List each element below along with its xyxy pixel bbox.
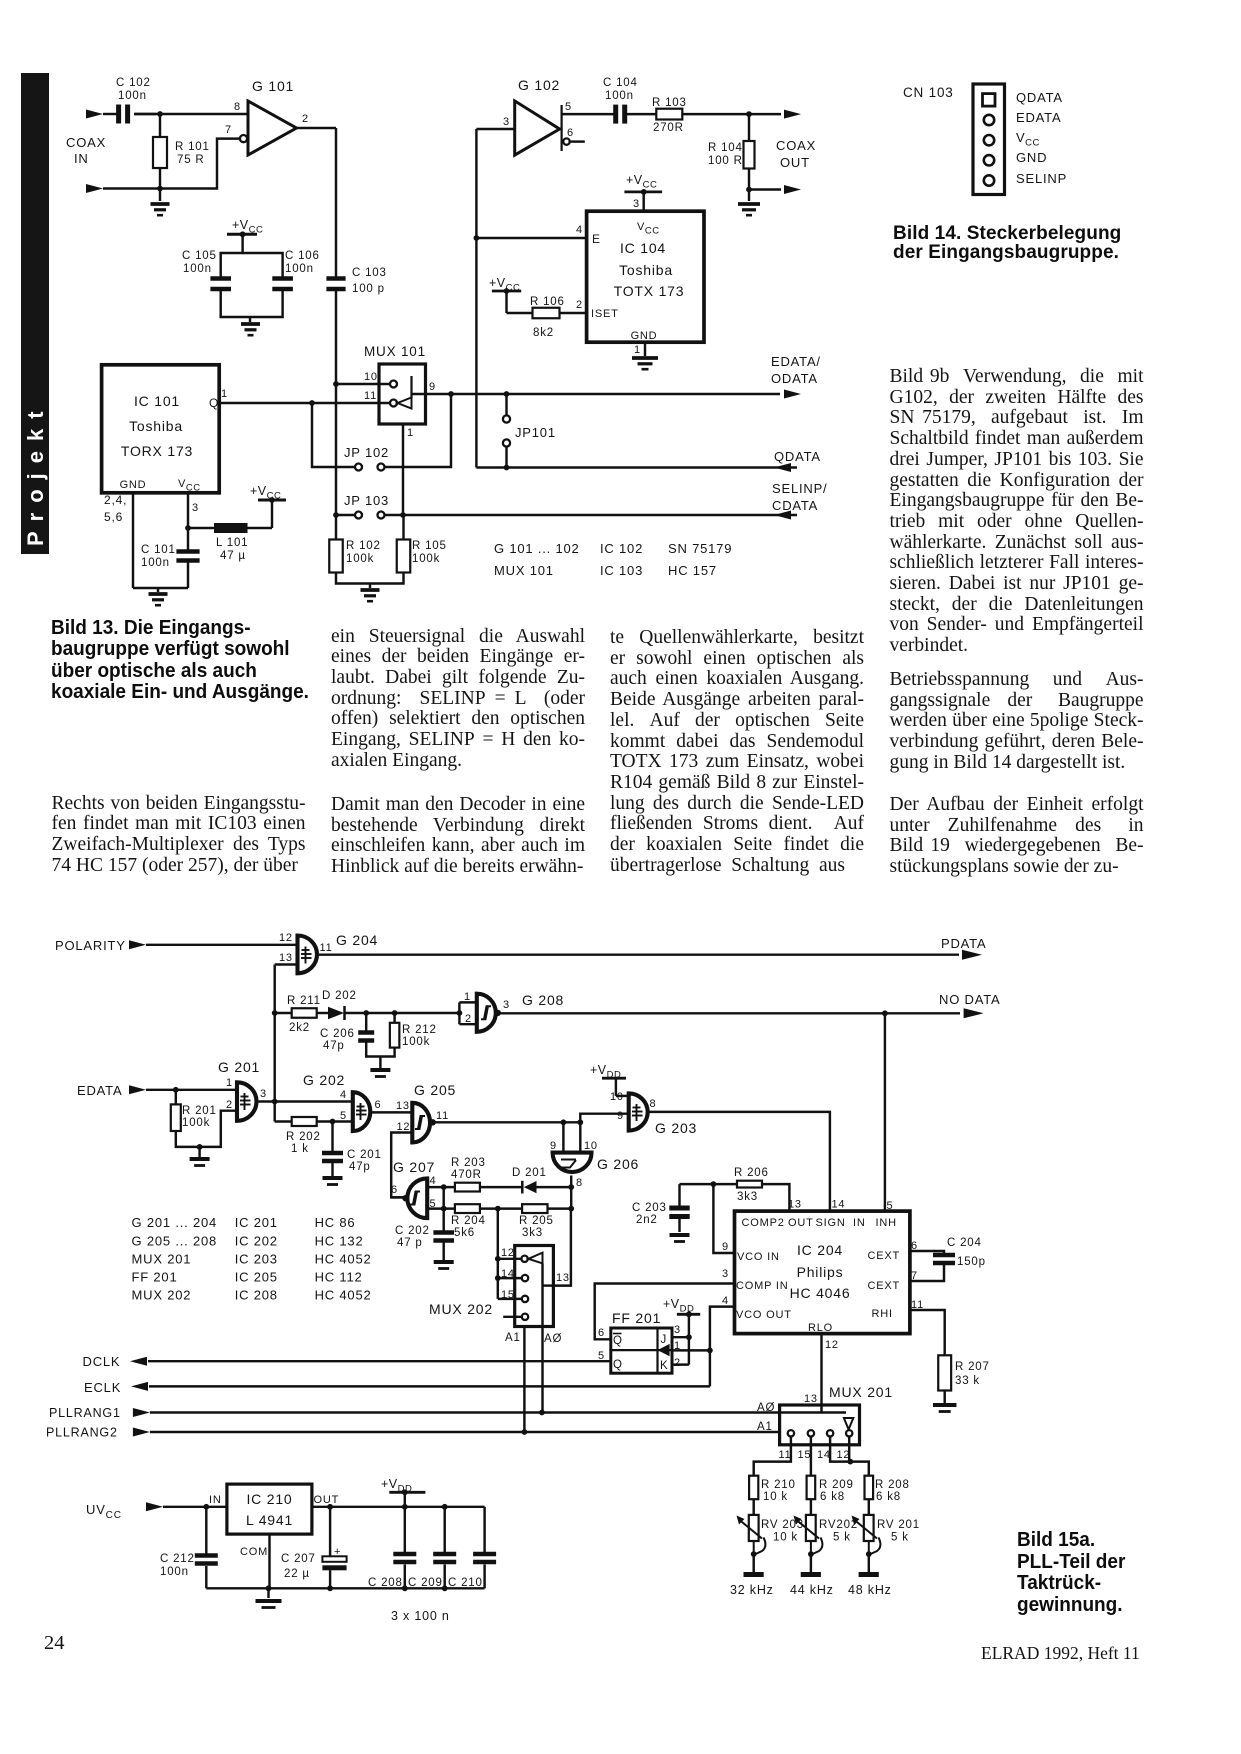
wire caps to ground — [221, 289, 283, 317]
wire E pin 4 — [476, 237, 586, 239]
ground below R104 — [748, 190, 750, 202]
svg-text:D 202: D 202 — [322, 990, 357, 1002]
svg-text:RLO: RLO — [808, 1322, 833, 1334]
svg-text:47 µ: 47 µ — [220, 550, 246, 562]
caption Bild 14 — [893, 224, 1121, 262]
wire IC210 COM — [268, 1534, 270, 1588]
node: FF clock junction — [707, 1348, 713, 1354]
power +VCC at L101 — [271, 500, 273, 528]
wire to G101 pin 8 — [160, 113, 248, 115]
svg-text:K: K — [660, 1360, 668, 1372]
wire lower line to G101 pin 7 — [160, 139, 239, 189]
svg-text:R 105: R 105 — [412, 540, 447, 552]
svg-text:R 102: R 102 — [346, 540, 381, 552]
svg-text:R 212: R 212 — [402, 1024, 437, 1036]
diode D201 — [480, 1186, 522, 1188]
svg-text:R 103: R 103 — [652, 97, 687, 109]
svg-text:8k2: 8k2 — [533, 327, 554, 339]
node: pin4/pin5 tie top — [441, 1184, 447, 1190]
capacitor C204 — [933, 1253, 955, 1258]
svg-text:R 101: R 101 — [175, 141, 210, 153]
jumper JP102 — [355, 464, 362, 471]
wire MUX201 pin 11 to R210 — [754, 1437, 791, 1476]
inductor L101 — [188, 527, 214, 529]
svg-text:6: 6 — [375, 1099, 382, 1111]
svg-text:+VDD: +VDD — [663, 1297, 694, 1315]
svg-text:1: 1 — [634, 344, 641, 356]
svg-text:IC 102: IC 102 — [600, 541, 643, 556]
column 1 paragraph — [52, 794, 306, 877]
input arrow COAX IN (signal) — [86, 110, 103, 119]
svg-text:13: 13 — [396, 1100, 410, 1112]
svg-text:R 204: R 204 — [451, 1215, 486, 1227]
svg-text:SELINP/: SELINP/ — [772, 481, 827, 496]
svg-text:14: 14 — [817, 1449, 831, 1461]
caption Bild 13 — [51, 618, 309, 703]
ground below IC104 — [632, 356, 658, 360]
node: JP103/R102 junction — [333, 512, 339, 518]
svg-text:470R: 470R — [451, 1169, 482, 1181]
column 3 paragraph — [610, 628, 864, 876]
regulator IC210 box — [227, 1484, 312, 1534]
svg-text:ODATA: ODATA — [771, 371, 818, 386]
svg-text:2: 2 — [674, 1357, 681, 1369]
svg-text:PLLRANG2: PLLRANG2 — [46, 1426, 118, 1440]
wire R103 to COAX OUT — [682, 113, 781, 115]
wire G207 pin 4 to R203 — [427, 1186, 455, 1188]
svg-text:MUX 101: MUX 101 — [494, 563, 554, 578]
ground below C203 — [678, 1219, 680, 1232]
svg-text:ECLK: ECLK — [84, 1380, 121, 1395]
svg-text:2: 2 — [226, 1099, 233, 1111]
op-amp G101 (SN75179 receiver) — [248, 101, 297, 155]
node: R201 junction — [173, 1087, 179, 1093]
svg-text:12: 12 — [501, 1247, 515, 1259]
caption Bild 15a — [1017, 1530, 1125, 1617]
svg-text:2: 2 — [302, 113, 309, 125]
svg-text:GND: GND — [631, 330, 658, 342]
svg-text:13: 13 — [556, 1272, 570, 1284]
svg-text:100k: 100k — [182, 1117, 210, 1129]
svg-text:100k: 100k — [412, 553, 440, 565]
capacitor C103 (series) — [326, 276, 345, 281]
svg-text:R 209: R 209 — [819, 1479, 854, 1491]
svg-text:PDATA: PDATA — [941, 936, 986, 951]
svg-text:MUX 101: MUX 101 — [364, 344, 426, 359]
MUX101 switch symbol — [398, 398, 412, 409]
ground below R201 — [190, 1157, 210, 1161]
ground below R207 — [943, 1391, 945, 1404]
node: C102/R101 junction — [157, 111, 163, 117]
wire POLARITY to G204 pin 12 — [146, 944, 298, 946]
wire: main vertical (G204.13/R211/G201.3) — [273, 965, 275, 1122]
svg-text:G 203: G 203 — [655, 1120, 697, 1136]
svg-text:48 kHz: 48 kHz — [848, 1583, 892, 1597]
svg-text:6: 6 — [598, 1327, 605, 1339]
svg-text:R 211: R 211 — [287, 995, 321, 1007]
svg-text:6 k8: 6 k8 — [876, 1491, 901, 1503]
svg-text:11: 11 — [779, 1449, 792, 1461]
footer journal — [981, 1643, 1140, 1664]
svg-text:G 201: G 201 — [218, 1059, 260, 1075]
wire: vertical from G101 out to C103 — [335, 128, 337, 277]
wire CEXT pin7 to C204 — [910, 1263, 944, 1281]
svg-text:1: 1 — [221, 388, 228, 400]
MUX202 internal pole wire / A0 riser — [541, 1263, 543, 1412]
wire +VCC to caps — [221, 234, 243, 277]
svg-text:100k: 100k — [402, 1036, 430, 1048]
capacitor C207 (electrolytic) — [329, 1507, 331, 1557]
capacitor C210 — [483, 1507, 485, 1553]
resistor R105 — [402, 515, 404, 540]
input arrow COAX IN (shield) — [86, 184, 103, 193]
svg-text:3: 3 — [192, 502, 199, 514]
wire FF201 J to +VDD — [672, 1336, 689, 1338]
wire FF201 K tie — [672, 1363, 689, 1365]
svg-text:11: 11 — [436, 1110, 449, 1122]
svg-text:1: 1 — [226, 1077, 233, 1089]
wire JP103 left — [336, 514, 355, 516]
svg-text:Projekt: Projekt — [23, 401, 48, 546]
svg-text:IC 205: IC 205 — [235, 1270, 278, 1285]
wire R202 to G202 pin 5 — [317, 1120, 353, 1122]
svg-text:13: 13 — [788, 1199, 802, 1211]
wire G203 out to IC204 pin 14 — [648, 1112, 830, 1211]
svg-text:2: 2 — [465, 1013, 472, 1025]
svg-text:VCC: VCC — [637, 221, 660, 237]
svg-text:9: 9 — [550, 1140, 557, 1152]
svg-text:5: 5 — [598, 1350, 605, 1362]
power +VDD at FF201 — [677, 1313, 700, 1316]
svg-text:C 204: C 204 — [947, 1237, 982, 1249]
svg-text:+VDD: +VDD — [381, 1477, 412, 1495]
CN103 pin 5 circle — [984, 175, 994, 185]
IC104 GND pin 1 wire — [644, 342, 646, 356]
MUX202 4th pin circle — [522, 1314, 528, 1320]
svg-text:IN: IN — [853, 1217, 866, 1229]
svg-text:CEXT: CEXT — [868, 1250, 901, 1262]
IC104 TOTX173 box — [587, 211, 704, 342]
wire D201 to junction — [537, 1186, 572, 1188]
svg-text:R 201: R 201 — [182, 1105, 217, 1117]
wire NO DATA line — [498, 1012, 960, 1014]
svg-text:7: 7 — [911, 1270, 918, 1282]
wire R106 to ISET pin 2 — [560, 312, 587, 314]
svg-text:3k3: 3k3 — [737, 1191, 758, 1203]
svg-text:QDATA: QDATA — [774, 449, 821, 464]
svg-text:SELINP: SELINP — [1016, 171, 1067, 186]
svg-text:POLARITY: POLARITY — [55, 938, 126, 953]
arrow EDATA/ODATA (out) — [784, 390, 801, 399]
wire EDATA to G201 pin 1 — [146, 1089, 237, 1091]
node: C201 junction — [330, 1119, 336, 1125]
svg-text:7: 7 — [225, 124, 232, 136]
svg-text:IC 208: IC 208 — [235, 1288, 278, 1303]
svg-text:Q: Q — [209, 396, 219, 410]
svg-text:IC 203: IC 203 — [235, 1252, 278, 1267]
svg-text:1 k: 1 k — [291, 1143, 309, 1155]
resistor R104 — [748, 114, 750, 141]
resistor R202 — [292, 1117, 317, 1126]
svg-text:R 210: R 210 — [761, 1479, 796, 1491]
svg-text:R 205: R 205 — [519, 1215, 554, 1227]
svg-text:C 207: C 207 — [281, 1553, 316, 1565]
wire D202 to G208 input — [345, 1012, 460, 1014]
svg-text:6: 6 — [911, 1240, 918, 1252]
svg-text:4: 4 — [722, 1295, 729, 1307]
svg-text:HC 112: HC 112 — [315, 1270, 363, 1285]
MUX202 pin 12 circle — [521, 1256, 527, 1262]
svg-text:+VDD: +VDD — [590, 1063, 621, 1081]
IC101 VCC pin wire — [187, 493, 189, 528]
svg-text:100 p: 100 p — [352, 283, 385, 295]
capacitor C212 — [205, 1507, 207, 1554]
arrow SELINP/CDATA (into page) — [774, 511, 791, 520]
svg-text:CDATA: CDATA — [772, 498, 818, 513]
wire G101 output pin 2 — [297, 127, 337, 129]
svg-text:47p: 47p — [323, 1040, 345, 1052]
node: IC104 E junction — [474, 235, 480, 241]
node: INH riser junction — [882, 1010, 888, 1016]
MUX101 pin 9 output wire — [412, 393, 781, 395]
node: G206 pin 9 riser — [561, 1119, 567, 1125]
wire to R106 — [507, 312, 533, 314]
svg-text:Q: Q — [613, 1359, 623, 1371]
resistor R211 — [275, 1012, 292, 1014]
MUX202 switch triangle — [529, 1253, 543, 1264]
resistor R204 — [455, 1204, 480, 1213]
svg-text:MUX 201: MUX 201 — [829, 1384, 893, 1400]
schmitt gate G205 — [412, 1103, 430, 1143]
G206 output wire — [570, 1176, 572, 1209]
svg-text:G 204: G 204 — [336, 932, 378, 948]
ground below RV201 — [868, 1554, 870, 1572]
svg-text:TORX 173: TORX 173 — [121, 443, 193, 459]
wire MUX202 A1 riser — [523, 1327, 525, 1433]
svg-text:9: 9 — [722, 1241, 729, 1253]
footer page number — [44, 1633, 65, 1654]
node: JP101 bottom on QDATA line — [504, 465, 510, 471]
resistor R102 — [329, 540, 343, 573]
node: R201 ground junction — [197, 1144, 203, 1150]
svg-text:RV202: RV202 — [819, 1519, 858, 1531]
MUX201 pin circles — [788, 1430, 794, 1436]
wire G205 out line — [433, 1121, 581, 1123]
wire PLLRANG1 / A0 line — [150, 1411, 846, 1413]
svg-text:8: 8 — [576, 1177, 583, 1189]
multiplexer MUX101 box — [379, 364, 426, 424]
power +VDD at G203 — [615, 1078, 617, 1096]
wire G207 output pin 6 — [391, 1196, 405, 1198]
node: R205/G206/MUX202.13 junction — [568, 1206, 574, 1212]
jumper JP103 — [355, 512, 362, 519]
node: R104 top junction — [746, 111, 752, 117]
svg-text:G 101 ... 102: G 101 ... 102 — [494, 541, 580, 556]
wire G201 out / G202 pin 4 — [257, 1100, 353, 1102]
svg-text:MUX 201: MUX 201 — [132, 1252, 192, 1267]
svg-text:HC 157: HC 157 — [668, 563, 717, 578]
IC101 GND pin wire — [132, 493, 134, 588]
svg-text:C 102: C 102 — [116, 77, 151, 89]
svg-text:COMP2: COMP2 — [742, 1217, 785, 1229]
wire: G102 input vertical (QDATA feed) — [475, 129, 477, 468]
capacitor C102 — [116, 105, 121, 124]
node: C207 top junction — [327, 1504, 333, 1510]
svg-text:G 208: G 208 — [522, 992, 564, 1008]
IC204 HC4046 box — [735, 1211, 910, 1334]
svg-text:6: 6 — [391, 1184, 398, 1196]
svg-text:R 106: R 106 — [530, 296, 565, 308]
wire QDATA line — [476, 466, 797, 468]
node: pin10/C103 junction — [333, 381, 339, 387]
svg-text:9: 9 — [617, 1110, 624, 1122]
wire PLLRANG2 / A1 line — [150, 1431, 780, 1433]
svg-text:+VCC: +VCC — [250, 484, 281, 502]
svg-text:FF 201: FF 201 — [132, 1270, 178, 1285]
ground below RV202 — [810, 1554, 812, 1572]
svg-text:IC 202: IC 202 — [235, 1234, 278, 1249]
jumper JP101 — [505, 394, 507, 416]
MUX101 pin 11 input circle — [390, 400, 397, 407]
resistor R103 — [656, 109, 682, 120]
wire ECLK line — [149, 1385, 710, 1387]
power +VDD at IC210 — [404, 1492, 406, 1507]
arrow NO DATA — [964, 1008, 984, 1018]
G208 input tie (pins 1,2) — [458, 1002, 460, 1024]
diode D202 — [317, 1012, 328, 1014]
svg-text:75 R: 75 R — [177, 154, 205, 166]
svg-text:13: 13 — [804, 1393, 818, 1405]
CN103 pin 3 circle — [984, 135, 994, 145]
svg-text:G 205: G 205 — [414, 1082, 456, 1098]
svg-text:TOTX 173: TOTX 173 — [614, 283, 685, 299]
wire ground rail — [206, 1587, 484, 1589]
MUX101 pin 1 wire — [402, 424, 404, 515]
node: pin12/pin14 junction — [847, 1459, 853, 1465]
xor gate G204 — [298, 936, 318, 974]
svg-text:C 104: C 104 — [603, 77, 638, 89]
CN103 pin 2 circle — [984, 115, 994, 125]
G207 output dot — [402, 1195, 408, 1201]
wire MUX201 pin 15 to R209 — [810, 1437, 812, 1476]
svg-text:5 k: 5 k — [833, 1532, 851, 1544]
driver G102 (SN75179) — [476, 128, 514, 130]
svg-text:6: 6 — [567, 127, 574, 139]
svg-text:G 202: G 202 — [303, 1072, 345, 1088]
xor gate G202 — [353, 1092, 371, 1131]
svg-text:100n: 100n — [118, 90, 147, 102]
capacitor C202 — [442, 1209, 444, 1231]
svg-text:R 203: R 203 — [451, 1157, 486, 1169]
wire C203 branch — [680, 1183, 714, 1185]
svg-text:OUT: OUT — [788, 1217, 814, 1229]
svg-text:VCO OUT: VCO OUT — [736, 1309, 792, 1321]
svg-text:150p: 150p — [957, 1256, 986, 1268]
svg-text:2k2: 2k2 — [289, 1022, 310, 1034]
svg-text:11: 11 — [320, 942, 333, 954]
svg-text:14: 14 — [832, 1199, 846, 1211]
svg-text:FF 201: FF 201 — [612, 1310, 661, 1326]
G101 pin7 bubble — [240, 135, 247, 142]
svg-text:IC 103: IC 103 — [600, 563, 643, 578]
wire RLO pin 12 riser to MUX201 — [820, 1334, 822, 1413]
svg-text:OUT: OUT — [780, 155, 810, 170]
capacitor C101 — [187, 528, 189, 550]
svg-text:3k3: 3k3 — [522, 1227, 543, 1239]
svg-text:11: 11 — [364, 390, 377, 402]
svg-text:IC 104: IC 104 — [620, 240, 666, 256]
svg-text:100n: 100n — [160, 1566, 189, 1578]
wire C206/R212 to ground — [366, 1042, 394, 1057]
column 2 paragraphs — [331, 627, 585, 772]
ground below rail — [267, 1588, 269, 1598]
wire G207 pin 5 to R204 — [427, 1207, 455, 1209]
MUX202 pin 13 wire to R205 node — [543, 1284, 554, 1286]
trimmer RV203 — [752, 1499, 754, 1515]
svg-text:UVCC: UVCC — [86, 1502, 122, 1521]
svg-text:HC 4052: HC 4052 — [315, 1252, 372, 1267]
svg-text:G 102: G 102 — [518, 77, 560, 93]
G208 output dot — [495, 1010, 501, 1016]
svg-text:1: 1 — [407, 427, 414, 439]
svg-text:1: 1 — [674, 1340, 681, 1352]
arrow ECLK — [131, 1382, 148, 1391]
svg-text:D 201: D 201 — [512, 1167, 547, 1179]
svg-text:IN: IN — [74, 151, 89, 166]
arrow PLLRANG2 — [133, 1428, 150, 1437]
svg-text:6 k8: 6 k8 — [820, 1491, 845, 1503]
schmitt gate G207 (mirrored) — [407, 1178, 427, 1218]
node: C212 junction — [203, 1504, 209, 1510]
MUX201 inverter triangle — [844, 1418, 853, 1430]
svg-text:INH: INH — [876, 1217, 897, 1229]
svg-text:VCO IN: VCO IN — [737, 1251, 780, 1263]
svg-text:R 104: R 104 — [708, 142, 743, 154]
svg-text:10: 10 — [364, 371, 378, 383]
wire G102 pin 5 — [562, 113, 616, 115]
svg-text:JP101: JP101 — [515, 425, 556, 440]
svg-text:10 k: 10 k — [763, 1491, 788, 1503]
node: MUX202 A1 junction — [522, 1429, 528, 1435]
wire MUX201 pin 12 to R208 — [848, 1437, 850, 1462]
svg-text:C 105: C 105 — [182, 250, 217, 262]
node: +VDD/C208 junction — [402, 1504, 408, 1510]
svg-text:COAX: COAX — [776, 138, 816, 153]
svg-text:4: 4 — [340, 1089, 347, 1101]
wire VCO IN riser — [713, 1184, 734, 1253]
svg-text:SN 75179: SN 75179 — [668, 541, 732, 556]
node: R212 junction — [392, 1010, 398, 1016]
capacitor C106 — [272, 276, 293, 281]
svg-text:47p: 47p — [349, 1161, 371, 1173]
arrow PDATA — [962, 950, 982, 960]
wire R206 right to IC204 pin 13 — [762, 1184, 789, 1211]
svg-text:SIGN: SIGN — [816, 1217, 846, 1229]
svg-text:11: 11 — [911, 1299, 924, 1311]
svg-text:R 206: R 206 — [734, 1167, 769, 1179]
G205 output dot — [430, 1119, 436, 1125]
ground below C202 — [442, 1243, 444, 1261]
node: MUX202 pin12 riser junction — [495, 1206, 501, 1212]
node: JP102 riser on EDATA line — [448, 391, 454, 397]
svg-text:9: 9 — [429, 381, 436, 393]
svg-text:2,4,: 2,4, — [104, 493, 127, 507]
capacitor C203 — [669, 1206, 689, 1211]
svg-text:5: 5 — [430, 1198, 437, 1210]
capacitor C206 — [365, 1013, 367, 1031]
resistor R205 — [522, 1204, 547, 1213]
ground below R102/R105 — [361, 588, 380, 592]
